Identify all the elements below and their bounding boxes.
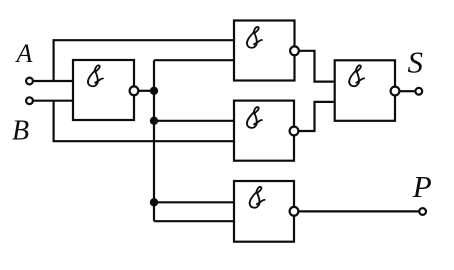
inversion bubble of D3 <box>290 127 299 136</box>
junction dot node N1 <box>150 87 158 95</box>
& symbol of D4 <box>349 65 364 86</box>
wire node N to gate D5 input 1 <box>154 201 233 203</box>
input terminal A <box>26 78 33 85</box>
wire A branch up to top rail <box>54 40 233 81</box>
inversion bubble of D4 <box>391 87 400 96</box>
svg-text:P: P <box>412 169 432 204</box>
svg-text:B: B <box>12 115 29 146</box>
wire node N vertical bus <box>153 60 155 221</box>
wire D3 output to gate D4 input 2 <box>299 102 334 131</box>
svg-text:A: A <box>15 39 33 68</box>
inversion bubble of D2 <box>290 46 299 55</box>
wire B branch down to bottom rail <box>54 101 233 142</box>
wire node N to gate D5 input 2 <box>154 220 233 222</box>
inversion bubble of D1 <box>130 86 139 95</box>
output terminal P <box>419 208 426 215</box>
gate D5 body (bottom NAND, P) <box>234 181 294 242</box>
gate D3 body (middle NAND) <box>234 101 294 161</box>
gate D4 body (output NAND, S) <box>335 60 395 121</box>
& symbol of D3 <box>247 107 262 128</box>
wire D2 output to gate D4 input 1 <box>299 51 334 82</box>
output terminal S <box>415 88 422 95</box>
wire D1 output to node N <box>138 90 154 92</box>
gate D1 body (A NAND B) <box>73 60 134 120</box>
& symbol of D2 <box>247 27 262 48</box>
wire D4 output to terminal S <box>400 90 415 92</box>
svg-text:S: S <box>408 44 424 79</box>
wire A terminal to gate D1 <box>34 80 73 82</box>
wire node N up to gate D2 input <box>154 59 233 61</box>
junction dot node N2 <box>150 117 158 125</box>
& symbol of D5 <box>250 187 265 208</box>
& symbol of D1 <box>88 65 103 86</box>
wire B terminal to gate D1 <box>34 100 73 102</box>
input terminal B <box>26 97 33 104</box>
gate D2 body (top NAND) <box>234 21 295 81</box>
inversion bubble of D5 <box>290 207 299 216</box>
wire node N to gate D3 input <box>154 120 233 122</box>
wire D5 output to terminal P <box>299 210 419 212</box>
junction dot node N3 <box>150 198 158 206</box>
